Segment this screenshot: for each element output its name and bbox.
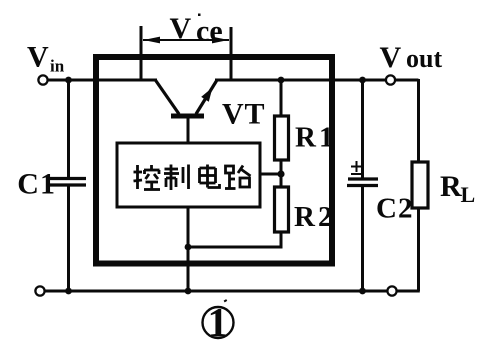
- scan speck above ce: [198, 14, 201, 17]
- resistor R2 body: [275, 187, 289, 232]
- svg-text:1: 1: [208, 299, 229, 345]
- scan speck near figure number: [224, 299, 228, 302]
- capacitor C1 bottom lead: [67, 185, 70, 291]
- junction node R2 return: [185, 244, 192, 251]
- transistor VT base lead wire: [187, 116, 190, 143]
- svg-text:V: V: [222, 98, 244, 131]
- resistor R1 bottom lead: [280, 160, 283, 175]
- capacitor C2 plates: [348, 177, 378, 180]
- transistor VT base bar: [171, 114, 204, 119]
- capacitor C1 plates: [50, 177, 86, 180]
- svg-text:T: T: [245, 98, 265, 131]
- char lu: [225, 166, 251, 189]
- Vce left tick: [140, 26, 143, 79]
- terminal ground left: [35, 286, 44, 295]
- char dian: [200, 165, 220, 188]
- wire control box bottom to ground rail: [187, 207, 190, 291]
- wire control box to divider node: [260, 173, 281, 176]
- resistor R2 bottom lead: [188, 232, 281, 247]
- text control circuit chinese: [134, 165, 251, 191]
- resistor R2 top lead: [280, 174, 283, 188]
- svg-text:in: in: [50, 57, 65, 76]
- resistor RL body: [412, 162, 428, 208]
- svg-text:V: V: [170, 12, 192, 45]
- svg-text:R: R: [294, 201, 316, 233]
- resistor R1 top lead: [280, 80, 283, 117]
- capacitor C1 top lead: [67, 80, 70, 178]
- Vce arrow line: [143, 39, 229, 41]
- wire emitter to Vout corner: [215, 79, 419, 82]
- svg-text:2: 2: [318, 201, 333, 233]
- terminal ground right: [387, 286, 396, 295]
- junction node C2 bottom: [359, 288, 366, 295]
- junction node R1-R2 divider: [277, 170, 284, 177]
- transistor VT emitter arrow: [201, 88, 212, 102]
- resistor RL bottom lead: [417, 208, 420, 291]
- figure number circle 1: [203, 307, 234, 338]
- char zhi: [164, 165, 189, 191]
- svg-text:out: out: [406, 44, 442, 73]
- svg-text:V: V: [27, 41, 49, 74]
- Vce right tick: [230, 27, 233, 79]
- transistor VT emitter slant: [196, 80, 217, 114]
- ground rail wire: [41, 290, 420, 293]
- transistor Q VT collector slant: [155, 80, 179, 115]
- junction node C1 bottom: [65, 288, 72, 295]
- junction node C1 top: [65, 77, 72, 84]
- junction node R1 top: [278, 77, 285, 84]
- terminal Vout: [386, 75, 395, 84]
- junction node C2 top: [359, 77, 366, 84]
- junction node control bottom: [185, 288, 192, 295]
- control circuit box: [117, 143, 260, 207]
- svg-text:L: L: [461, 182, 476, 207]
- terminal Vin: [38, 75, 47, 84]
- resistor R1 body: [275, 116, 289, 160]
- capacitor C2 polarity mark: [351, 161, 362, 174]
- svg-text:1: 1: [319, 122, 334, 154]
- svg-text:C: C: [17, 168, 39, 201]
- svg-text:1: 1: [40, 168, 55, 201]
- svg-text:V: V: [380, 41, 402, 74]
- capacitor C2 bottom lead: [361, 186, 364, 292]
- svg-text:C: C: [376, 193, 397, 225]
- wire Vin rail to collector: [47, 79, 157, 82]
- char kong: [134, 165, 161, 190]
- svg-text:R: R: [295, 122, 317, 154]
- Vce right arrowhead: [212, 37, 229, 44]
- Vce left arrowhead: [144, 37, 161, 44]
- svg-text:ce: ce: [196, 15, 223, 48]
- svg-text:2: 2: [398, 193, 413, 225]
- regulator outline thick box: [96, 57, 332, 264]
- capacitor C2 top lead: [361, 80, 364, 178]
- svg-text:R: R: [440, 170, 462, 203]
- resistor RL top lead: [417, 79, 420, 163]
